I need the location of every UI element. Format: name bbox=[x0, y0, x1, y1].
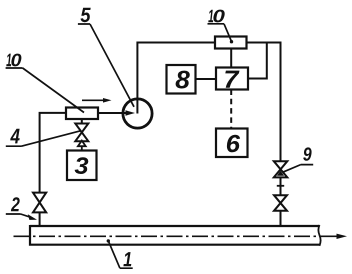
box 8 bbox=[167, 65, 196, 94]
wire: regulator 10 down to valve 4 bbox=[81, 119, 83, 124]
label 10 left bbox=[6, 54, 84, 113]
wire: pump 5 up and right to device 10 bbox=[137, 43, 215, 114]
wire: device 10 right edge to riser down to valve 9 bbox=[247, 43, 281, 162]
arrow from box 3 up to valve 4 bbox=[78, 141, 86, 151]
label 1 bbox=[107, 239, 133, 268]
pipe 1 pipeline body bbox=[30, 225, 321, 246]
label 9 bbox=[283, 147, 314, 172]
box 3 bbox=[67, 151, 97, 181]
box 7 bbox=[216, 68, 248, 90]
device 10 right (rect) bbox=[215, 37, 247, 49]
box 6 bbox=[216, 129, 248, 158]
wire with arrow: regulator 10 to pump 5 bbox=[98, 110, 135, 115]
wire: regulator 10 left to riser and down to valve 2 bbox=[40, 113, 66, 193]
label 2 bbox=[6, 197, 37, 220]
valve 2 bbox=[33, 193, 46, 213]
valve 4 bbox=[75, 124, 88, 142]
feedback wire: box 7 to top wire bbox=[248, 43, 267, 79]
flow arrow above regulator bbox=[82, 98, 112, 103]
regulator 10 left (rect) bbox=[66, 108, 98, 120]
valve 9 upper (with filled plug) bbox=[274, 161, 288, 177]
label 4 bbox=[6, 129, 81, 146]
wire between valve 9 sections bbox=[280, 177, 282, 195]
label 5 bbox=[78, 8, 134, 107]
wire: valve 9 to pipe bbox=[280, 211, 282, 227]
label 10 right bbox=[208, 10, 234, 44]
tick below valve 9 bbox=[277, 185, 284, 187]
wire: box 8 to box 7 bbox=[196, 78, 217, 80]
pipe centerline (dash-dot) bbox=[14, 235, 322, 237]
wire: device 10 down to box 7 bbox=[230, 49, 232, 68]
flow arrow at pipe right end bbox=[320, 234, 348, 239]
dashed wire: box 7 to box 6 bbox=[230, 90, 232, 129]
pump 5 (circle) bbox=[123, 99, 152, 128]
wire: valve 2 to pipe bbox=[39, 212, 41, 227]
valve 9 lower bbox=[274, 195, 287, 211]
